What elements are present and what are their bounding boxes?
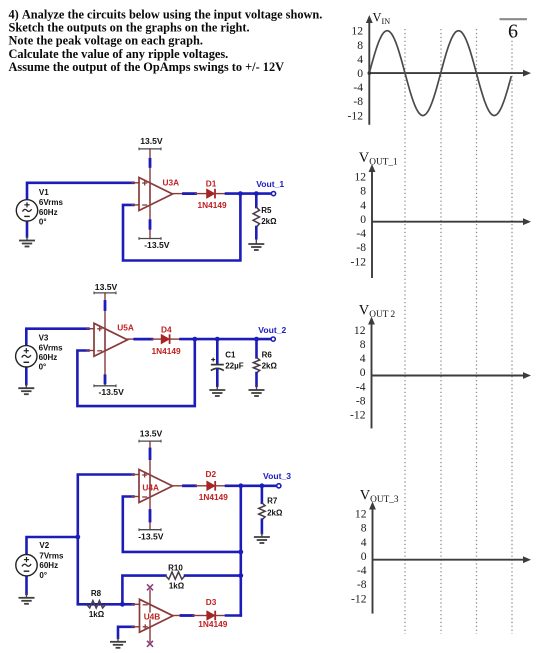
- svg-text:-8: -8: [356, 241, 366, 254]
- svg-text:2kΩ: 2kΩ: [267, 509, 283, 518]
- svg-text:VOUT_3: VOUT_3: [360, 488, 399, 505]
- svg-text:VIN: VIN: [373, 11, 391, 26]
- D3 cathode lead: [215, 615, 226, 617]
- label V2 0deg: [39, 571, 47, 580]
- pin segment V+ U4A: [149, 449, 152, 459]
- pin stub U4A + input: [132, 474, 139, 476]
- label 1N4149 (D3): [198, 619, 227, 629]
- op-amp U3A: [139, 178, 173, 211]
- pin stub U4B + input: [132, 626, 140, 628]
- svg-text:V3: V3: [39, 333, 49, 342]
- svg-text:8: 8: [357, 39, 363, 52]
- label -13.5V (U4A): [138, 531, 164, 541]
- page number 6 with overline: [500, 19, 528, 42]
- header instructions text: [9, 7, 323, 74]
- svg-text:12: 12: [351, 25, 363, 38]
- svg-text:D1: D1: [206, 178, 217, 188]
- svg-text:0: 0: [361, 550, 367, 563]
- svg-text:4) Analyze the circuits below: 4) Analyze the circuits below using the …: [9, 7, 323, 21]
- wire D4 to Vout_2: [181, 338, 272, 341]
- svg-text:Calculate the value of any rip: Calculate the value of any ripple voltag…: [9, 47, 229, 61]
- D2 cathode lead: [215, 485, 226, 487]
- ground below R5: [248, 240, 264, 251]
- label U4A: [142, 483, 159, 493]
- graph VOUT_2 y-axis: [368, 317, 375, 429]
- junction D2 output node: [238, 483, 243, 488]
- svg-text:-12: -12: [348, 109, 364, 122]
- svg-text:6: 6: [508, 21, 518, 43]
- feedback bus vertical (D2 node down to D3): [240, 486, 243, 616]
- R10 right lead: [185, 574, 241, 577]
- pin stub U5A + input: [87, 328, 94, 330]
- graph VOUT_1 y-axis scale labels: [351, 171, 367, 269]
- svg-text:-13.5V: -13.5V: [138, 531, 164, 541]
- junction R5 node: [254, 191, 259, 196]
- svg-text:U5A: U5A: [117, 323, 134, 333]
- diode D3: [207, 611, 215, 621]
- diode D4: [161, 334, 169, 344]
- terminal Vout_1: [271, 192, 275, 196]
- svg-text:8: 8: [361, 522, 367, 535]
- U4B output lead: [173, 615, 207, 617]
- junction R7 node: [260, 483, 265, 488]
- svg-text:D2: D2: [206, 469, 217, 479]
- label U3A: [163, 178, 180, 188]
- label R5 2k: [261, 217, 277, 226]
- label V1: [39, 188, 49, 197]
- svg-text:R7: R7: [267, 497, 278, 506]
- label -13.5V (U3A): [144, 240, 170, 250]
- label R7 2k: [267, 509, 283, 518]
- label V3 60Hz: [39, 353, 58, 362]
- svg-text:VOUT_1: VOUT_1: [359, 150, 398, 167]
- junction R10 / feedback bus: [238, 573, 243, 578]
- wire node to U4A + input: [78, 475, 134, 538]
- pin stub U3A - input: [132, 204, 139, 206]
- junction feedback bus / U4A feedback: [238, 550, 243, 555]
- label 1N4149 (D4): [152, 346, 181, 356]
- label V1 60Hz: [39, 208, 58, 217]
- feedback wire U3A: [123, 194, 240, 261]
- ground below R7: [254, 533, 270, 544]
- label V3: [39, 333, 49, 342]
- label 13.5V (U3A): [140, 136, 163, 146]
- label V1 6Vrms: [39, 198, 64, 207]
- svg-text:-12: -12: [350, 409, 366, 422]
- resistor R8: [87, 601, 106, 608]
- junction V2 node: [75, 535, 80, 540]
- svg-text:13.5V: 13.5V: [95, 282, 118, 292]
- svg-text:0°: 0°: [39, 571, 47, 580]
- svg-text:2kΩ: 2kΩ: [261, 217, 277, 226]
- svg-text:60Hz: 60Hz: [39, 353, 58, 362]
- feedback wire U5A: [77, 339, 194, 406]
- power rail 13.5V above U4A: [139, 440, 161, 495]
- svg-text:R8: R8: [91, 589, 102, 598]
- R5 top lead: [255, 194, 258, 207]
- U5A output lead: [128, 338, 162, 340]
- svg-text:U4A: U4A: [142, 483, 159, 493]
- op-amp U5A: [94, 323, 128, 356]
- graph VOUT_2 y-axis scale labels: [350, 324, 366, 422]
- svg-text:-8: -8: [357, 578, 367, 591]
- graph VOUT_2 x-axis: [372, 372, 532, 379]
- svg-text:U3A: U3A: [163, 178, 180, 188]
- svg-text:U4B: U4B: [144, 611, 161, 621]
- pin segment V+ U5A: [104, 302, 107, 310]
- junction C1 node: [215, 337, 220, 342]
- graph VOUT_3 label: [360, 488, 399, 505]
- svg-text:-4: -4: [357, 564, 367, 577]
- svg-text:12: 12: [354, 171, 366, 184]
- svg-text:-13.5V: -13.5V: [144, 240, 170, 250]
- label -13.5V (U5A): [99, 387, 125, 397]
- wire V2 bottom to ground: [25, 576, 28, 594]
- dotted timing guide lines: [405, 29, 512, 634]
- svg-text:0: 0: [357, 67, 363, 80]
- graph VOUT_3 y-axis scale labels: [351, 508, 367, 606]
- svg-text:13.5V: 13.5V: [140, 136, 163, 146]
- R10 left lead: [122, 576, 165, 605]
- label V2: [39, 541, 49, 550]
- svg-text:6Vrms: 6Vrms: [39, 343, 64, 352]
- R7 bottom lead: [261, 520, 264, 533]
- U3A output lead: [173, 193, 207, 195]
- junction R6 node: [254, 337, 259, 342]
- feedback wire to U4A - input: [123, 497, 241, 552]
- svg-text:Sketch the outputs on the grap: Sketch the outputs on the graphs on the …: [9, 21, 250, 35]
- D4 cathode lead: [170, 338, 181, 340]
- op-amp U4A: [139, 470, 173, 503]
- svg-text:8: 8: [360, 338, 366, 351]
- capacitor C1: [211, 358, 224, 371]
- svg-text:-4: -4: [356, 380, 366, 393]
- pin stub U4B - input: [132, 603, 140, 605]
- resistor R6: [253, 357, 259, 373]
- U4B + input wire to ground: [118, 627, 134, 638]
- svg-text:4: 4: [360, 352, 366, 365]
- svg-text:Assume the output of the OpAmp: Assume the output of the OpAmps swings t…: [9, 60, 285, 74]
- svg-text:C1: C1: [225, 350, 236, 359]
- AC source V1: [16, 200, 37, 221]
- R6 bottom lead: [255, 373, 258, 386]
- label 1N4149 (D2): [199, 492, 228, 502]
- wire D3 to feedback bus: [226, 614, 241, 617]
- svg-text:0°: 0°: [39, 217, 47, 226]
- label R7: [267, 497, 278, 506]
- label Vout_2: [258, 325, 286, 335]
- svg-text:0°: 0°: [39, 363, 47, 372]
- label 1N4149 (D1): [198, 200, 227, 210]
- svg-text:-4: -4: [356, 227, 366, 240]
- svg-text:R5: R5: [261, 206, 272, 215]
- ground below V1: [19, 236, 35, 247]
- diode D1: [207, 189, 215, 199]
- graph VOUT_1 x-axis: [372, 218, 531, 225]
- svg-text:60Hz: 60Hz: [39, 561, 58, 570]
- label R8 1k: [89, 610, 105, 619]
- svg-text:13.5V: 13.5V: [140, 429, 163, 439]
- VIN sine waveform (2 cycles, +/-12V): [368, 31, 512, 116]
- svg-text:1N4149: 1N4149: [199, 492, 228, 502]
- pin segment V+ U3A: [149, 159, 152, 166]
- svg-text:-8: -8: [356, 394, 366, 407]
- AC source V2: [16, 555, 37, 576]
- svg-text:6Vrms: 6Vrms: [39, 198, 64, 207]
- svg-text:Vout_2: Vout_2: [258, 325, 286, 335]
- svg-text:Note the peak voltage on each: Note the peak voltage on each graph.: [9, 34, 203, 48]
- svg-text:4: 4: [361, 536, 367, 549]
- D1 cathode lead: [215, 193, 226, 195]
- junction feedback node 2: [192, 337, 197, 342]
- graph VIN label: [373, 11, 391, 26]
- power rail 13.5V above U3A: [139, 148, 161, 204]
- svg-text:2kΩ: 2kΩ: [262, 362, 278, 371]
- label U5A: [117, 323, 134, 333]
- svg-text:12: 12: [354, 324, 366, 337]
- ground below U4B + input: [110, 637, 126, 648]
- C1 bottom lead: [216, 370, 219, 386]
- wire R8 row: [87, 603, 134, 606]
- svg-text:12: 12: [355, 508, 367, 521]
- graph VIN x-axis: [369, 70, 531, 77]
- junction R8 / R10 / U4B - input: [120, 602, 125, 607]
- ground below C1: [209, 386, 225, 397]
- pin stub U3A + input: [132, 182, 139, 184]
- label R6: [262, 350, 273, 359]
- svg-text:R6: R6: [262, 350, 273, 359]
- label 13.5V (U4A): [140, 429, 163, 439]
- pin segment V- U4A: [149, 511, 152, 522]
- R5 bottom lead: [255, 227, 258, 238]
- wire D2 to Vout_3: [226, 484, 277, 487]
- power rail -13.5V below U5A: [94, 331, 116, 387]
- label Vout_1: [256, 179, 284, 189]
- svg-text:0: 0: [360, 213, 366, 226]
- diode D2: [207, 481, 215, 491]
- wire V3 to U5A + input: [26, 329, 88, 346]
- svg-text:R10: R10: [168, 563, 183, 572]
- ground below V2: [19, 593, 35, 604]
- svg-text:7Vrms: 7Vrms: [39, 551, 64, 560]
- U4A output lead: [173, 485, 207, 487]
- C1 top lead: [216, 339, 219, 363]
- pin segment V- U5A: [104, 376, 107, 383]
- svg-text:60Hz: 60Hz: [39, 208, 58, 217]
- ground below V3: [18, 384, 34, 395]
- label 13.5V (U5A): [95, 282, 118, 292]
- wire V1 bottom to ground: [26, 221, 29, 237]
- resistor R7: [259, 503, 265, 520]
- svg-text:-12: -12: [351, 255, 367, 268]
- svg-text:22µF: 22µF: [225, 362, 244, 371]
- label V1 0deg: [39, 217, 47, 226]
- svg-text:Vout_3: Vout_3: [263, 471, 291, 481]
- label R8: [91, 589, 102, 598]
- label V2 7Vrms: [39, 551, 64, 560]
- svg-text:0: 0: [360, 366, 366, 379]
- pin segment V- U3A: [149, 221, 152, 229]
- R6 top lead: [255, 339, 258, 357]
- U4B unconnected V- pin: [147, 620, 153, 647]
- graph VOUT_1 label: [359, 150, 398, 167]
- op-amp U4B: [140, 599, 174, 632]
- graph VIN y-axis scale labels: [348, 25, 364, 123]
- AC source V3: [16, 346, 37, 367]
- ground below R6: [249, 386, 265, 397]
- svg-text:Vout_1: Vout_1: [256, 179, 284, 189]
- svg-text:-8: -8: [353, 95, 363, 108]
- svg-text:4: 4: [357, 53, 363, 66]
- graph VOUT_2 label: [359, 303, 396, 320]
- svg-text:-13.5V: -13.5V: [99, 387, 125, 397]
- resistor R10: [166, 572, 186, 579]
- label R5: [261, 206, 272, 215]
- power rail -13.5V below U4A: [139, 477, 161, 531]
- label C1: [225, 350, 236, 359]
- label D3: [206, 597, 217, 607]
- svg-text:1kΩ: 1kΩ: [169, 581, 185, 590]
- graph VOUT_3 x-axis: [373, 556, 532, 563]
- svg-text:D4: D4: [161, 324, 172, 334]
- terminal Vout_2: [271, 337, 275, 341]
- R7 top lead: [261, 486, 264, 503]
- label V2 60Hz: [39, 561, 58, 570]
- terminal Vout_3: [277, 484, 281, 488]
- label D4: [161, 324, 172, 334]
- junction feedback node 1: [238, 191, 243, 196]
- label U4B: [144, 611, 161, 621]
- svg-text:1N4149: 1N4149: [152, 346, 181, 356]
- power rail -13.5V below U3A: [139, 185, 161, 240]
- label V3 0deg: [39, 363, 47, 372]
- label D2: [206, 469, 217, 479]
- label V3 6Vrms: [39, 343, 64, 352]
- wire V1 to U3A + input: [27, 183, 134, 200]
- label R10 1k: [169, 581, 185, 590]
- pin stub U5A - input: [87, 350, 94, 352]
- graph VIN y-axis: [366, 15, 373, 125]
- pin stub U4A - input: [132, 496, 139, 498]
- graph VOUT_1 y-axis: [369, 164, 376, 278]
- label R6 2k: [262, 362, 278, 371]
- svg-text:1kΩ: 1kΩ: [89, 610, 105, 619]
- svg-text:-12: -12: [351, 592, 367, 605]
- svg-text:V1: V1: [39, 188, 49, 197]
- svg-text:V2: V2: [39, 541, 49, 550]
- svg-text:VOUT 2: VOUT 2: [359, 303, 396, 320]
- svg-text:1N4149: 1N4149: [198, 200, 227, 210]
- resistor R5: [253, 207, 259, 227]
- svg-text:4: 4: [360, 199, 366, 212]
- wire node down to R8: [78, 537, 87, 604]
- svg-text:8: 8: [360, 185, 366, 198]
- graph VOUT_3 y-axis: [369, 502, 376, 614]
- wire V2 up to node: [27, 537, 78, 554]
- svg-text:1N4149: 1N4149: [198, 619, 227, 629]
- U4B unconnected V+ pin: [147, 584, 153, 612]
- label R10: [168, 563, 183, 572]
- label C1 22uF: [225, 362, 244, 371]
- label D1: [206, 178, 217, 188]
- power rail 13.5V above U5A: [94, 292, 116, 350]
- label Vout_3: [263, 471, 291, 481]
- wire V3 bottom to ground: [25, 367, 28, 384]
- wire D1 to Vout_1: [226, 192, 271, 195]
- svg-text:D3: D3: [206, 597, 217, 607]
- svg-text:-4: -4: [353, 81, 363, 94]
